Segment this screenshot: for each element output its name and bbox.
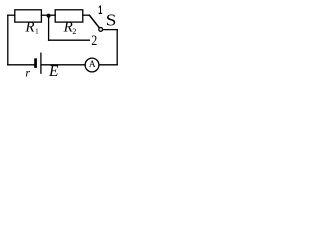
svg-text:E: E [48, 63, 59, 80]
svg-text:2: 2 [91, 32, 97, 49]
wire middle to contact 2 [49, 39, 90, 41]
svg-text:R: R [24, 20, 34, 36]
resistor R2 [55, 10, 83, 22]
wire right rail [116, 30, 118, 65]
node junction dot [47, 14, 51, 18]
svg-text:S: S [106, 11, 117, 30]
wire battery to left rail [8, 64, 35, 66]
wire R1 to R2 [41, 14, 55, 16]
svg-text:1: 1 [35, 27, 39, 36]
wire left rail [7, 15, 9, 65]
resistor R1 [15, 10, 42, 22]
svg-text:1: 1 [98, 4, 102, 17]
wire ammeter to battery [42, 64, 86, 66]
svg-text:A: A [89, 60, 96, 70]
wire top left [8, 14, 15, 16]
wire junction drop [48, 16, 50, 41]
battery E positive plate (long thin) [40, 53, 42, 73]
svg-text:r: r [25, 66, 30, 80]
switch S blade [89, 15, 99, 28]
ammeter A [85, 58, 99, 72]
svg-text:2: 2 [72, 27, 76, 36]
svg-text:R: R [63, 20, 73, 36]
battery E negative plate (short thick) [34, 58, 37, 68]
switch S pivot circle [99, 28, 103, 32]
wire bottom right [99, 64, 117, 66]
wire pivot to right rail [103, 29, 118, 31]
wire R2 to contact 1 [83, 14, 90, 16]
